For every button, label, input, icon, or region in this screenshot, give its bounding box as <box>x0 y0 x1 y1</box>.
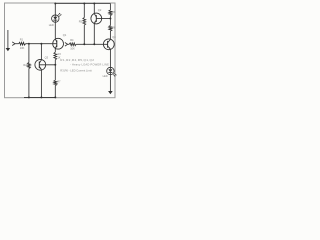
wire Q3 emitter to ground <box>40 69 42 97</box>
LED LED2 <box>107 67 117 76</box>
svg-text:R5: R5 <box>79 20 83 24</box>
node Q3 base junction <box>54 64 56 66</box>
resistor R8 <box>109 26 112 32</box>
svg-text:Q4: Q4 <box>112 35 116 39</box>
svg-text:LED: LED <box>103 74 108 78</box>
wire Q4 emitter to LED2 <box>109 49 111 67</box>
wire Q1 emitter to R3 <box>54 48 56 52</box>
node Q3 collector branch <box>40 43 42 45</box>
wire input1 to R1 <box>15 43 19 45</box>
wire R8 to Q4 collector <box>109 31 111 40</box>
node R2 branch <box>28 43 30 45</box>
wire rail to LED1 <box>54 4 56 16</box>
wire R4 to Q4 base <box>76 43 107 45</box>
wire rail corner to R6 <box>109 4 111 11</box>
wire input2 to R4 <box>68 43 70 45</box>
node ground Q3 <box>40 96 42 98</box>
wire R2 to ground rail <box>28 69 30 98</box>
svg-text:R2: R2 <box>23 63 27 67</box>
svg-text:R3: R3 <box>58 53 62 56</box>
wire Q3 base <box>39 64 55 66</box>
resistor R6 <box>109 10 112 16</box>
svg-text:Q2: Q2 <box>98 8 102 12</box>
node rail-Q2 junction <box>93 3 95 5</box>
wire Q2 base to divider <box>96 18 110 20</box>
wire R1 to Q1 base <box>26 43 57 45</box>
transistor Q2 <box>91 13 102 24</box>
node ground R7 <box>54 96 56 98</box>
svg-text:LED: LED <box>49 23 54 27</box>
svg-text:Q3: Q3 <box>45 56 49 60</box>
wire R3 to Q3 base node <box>54 60 56 80</box>
node Q2 emitter junction <box>93 43 95 45</box>
wire Q3 collector up <box>40 44 42 60</box>
node ground R2 <box>28 96 30 98</box>
off-page arrow (supply) <box>7 30 9 48</box>
border frame <box>5 3 116 98</box>
wire rail to R5 <box>83 4 85 18</box>
svg-text:R4: R4 <box>70 38 74 42</box>
resistor R5 <box>83 18 86 26</box>
transistor Q4 <box>103 39 114 50</box>
LED LED1 <box>52 13 62 22</box>
transistor Q1 <box>53 38 64 49</box>
input connector 1 <box>12 42 15 46</box>
wire LED1 to Q1 collector <box>54 22 56 38</box>
wire node to R2 <box>28 44 30 63</box>
svg-text:R7: R7 <box>57 81 61 84</box>
wire Q2 emitter down <box>93 23 95 44</box>
wire top supply rail <box>55 3 110 5</box>
node R5 vertical branch <box>83 43 85 45</box>
svg-text:- Heavy LOAD POWER LINE: - Heavy LOAD POWER LINE <box>70 62 109 66</box>
resistor R3 <box>54 52 57 60</box>
svg-text:Q1: Q1 <box>63 33 67 37</box>
svg-text:10K: 10K <box>70 47 75 51</box>
svg-text:10K: 10K <box>20 46 25 50</box>
svg-text:R1: R1 <box>20 38 24 42</box>
resistor R2 <box>28 63 31 69</box>
transistor Q3 <box>35 59 46 70</box>
input connector 2 <box>65 43 68 47</box>
resistor R7 <box>54 80 57 85</box>
wire R5 down to node <box>83 25 85 44</box>
node rail-LED junction <box>54 3 56 5</box>
wire ground rail <box>24 96 55 98</box>
wire LED2 cathode down with arrow <box>109 75 111 92</box>
wire R6 to node <box>109 16 111 26</box>
svg-text:R3,R6 - LED Current Limit: R3,R6 - LED Current Limit <box>60 68 92 72</box>
wire R7 to ground rail <box>54 86 56 98</box>
node rail-R4 junction <box>83 3 85 5</box>
resistor R4 <box>69 43 76 46</box>
svg-text:R1,R2,R4,R5,Q1,Q2: R1,R2,R4,R5,Q1,Q2 <box>60 58 94 62</box>
resistor R1 <box>19 42 26 45</box>
wire Q2 collector to rail <box>93 4 95 14</box>
node Q2 base node <box>109 18 111 20</box>
